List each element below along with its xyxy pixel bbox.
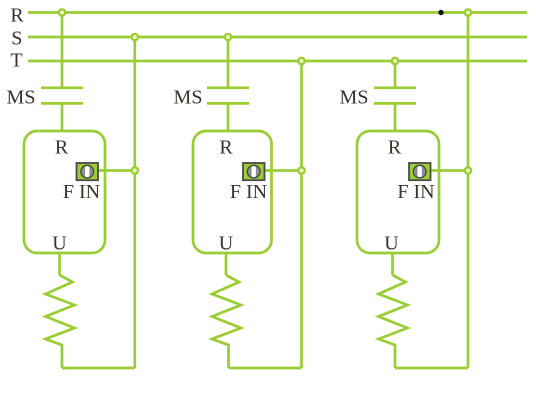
wire: branch2 vertical from bus S to contactor MS2: [227, 37, 230, 88]
drive box U2: [193, 131, 272, 253]
switch icon S3: [409, 163, 431, 180]
drive box U3: [357, 131, 439, 253]
switch icon S1: [77, 163, 99, 180]
bus R wire: [28, 11, 527, 14]
wire: branch1 lead from box U to resistor R1: [58, 253, 61, 275]
wire: branch1 vertical from bus R to contactor MS1: [61, 13, 64, 88]
junction: branch3 on bus T: [392, 58, 398, 64]
junction: branch1 on bus R: [59, 9, 65, 15]
drive box U1: [24, 131, 105, 253]
wire: branch2 bottom return: [229, 367, 302, 370]
svg-text:R: R: [10, 5, 24, 27]
wire: branch3 vertical from contactor MS3 to drive box 3: [394, 103, 397, 131]
wire: branch1 bottom return: [62, 367, 135, 370]
wire: branch2 lead from box U to resistor R2: [225, 253, 228, 275]
junction: branch1 switch wire tee: [132, 167, 138, 173]
junction: branch2 switch wire tee: [298, 167, 304, 173]
contactor MS3: [374, 88, 416, 104]
switch icon S2: [243, 163, 265, 180]
resistor R1: [46, 275, 75, 368]
svg-text:MS: MS: [7, 87, 36, 109]
wire: branch3 lead from box U to resistor R3: [391, 253, 394, 275]
junction: branch2 on bus S: [225, 34, 231, 40]
wire: branch1 from switch icon to F vertical: [98, 169, 135, 172]
resistor R3: [379, 275, 408, 368]
wire: branch2 vertical from contactor MS2 to drive box 2: [227, 103, 230, 131]
wire: branch1 F-input vertical from bus S down to bottom: [133, 37, 136, 368]
node: black dot on bus R: [438, 10, 443, 15]
wire: branch3 bottom return: [395, 367, 468, 370]
svg-text:R: R: [219, 137, 233, 159]
svg-text:U: U: [384, 233, 399, 255]
svg-text:R: R: [388, 137, 402, 159]
contactor MS1: [41, 88, 83, 104]
wire: branch2 F-input vertical from bus T down to bottom: [300, 61, 303, 368]
wire: branch3 vertical from bus T to contactor MS3: [394, 61, 397, 88]
junction: branch3 F on bus R: [465, 9, 471, 15]
svg-text:U: U: [52, 233, 67, 255]
svg-text:F IN: F IN: [230, 181, 267, 203]
svg-text:F IN: F IN: [397, 181, 434, 203]
svg-text:T: T: [10, 50, 22, 72]
wire: branch3 F-input vertical from bus R down to bottom: [467, 13, 470, 369]
svg-text:R: R: [55, 137, 69, 159]
svg-text:MS: MS: [174, 87, 203, 109]
svg-text:F IN: F IN: [63, 181, 100, 203]
svg-text:U: U: [219, 233, 234, 255]
wire: branch2 from switch icon to F vertical: [265, 169, 302, 172]
resistor R2: [212, 275, 241, 368]
junction: branch1 F on bus S: [132, 34, 138, 40]
svg-text:S: S: [11, 28, 22, 50]
bus T wire: [28, 60, 527, 63]
wire: branch1 vertical from contactor MS1 to drive box 1: [61, 103, 64, 131]
svg-text:MS: MS: [340, 87, 369, 109]
junction: branch3 switch wire tee: [465, 167, 471, 173]
junction: branch2 F on bus T: [298, 58, 304, 64]
wire: branch3 from switch icon to F vertical: [431, 169, 469, 172]
bus S wire: [28, 36, 527, 39]
contactor MS2: [207, 88, 249, 104]
